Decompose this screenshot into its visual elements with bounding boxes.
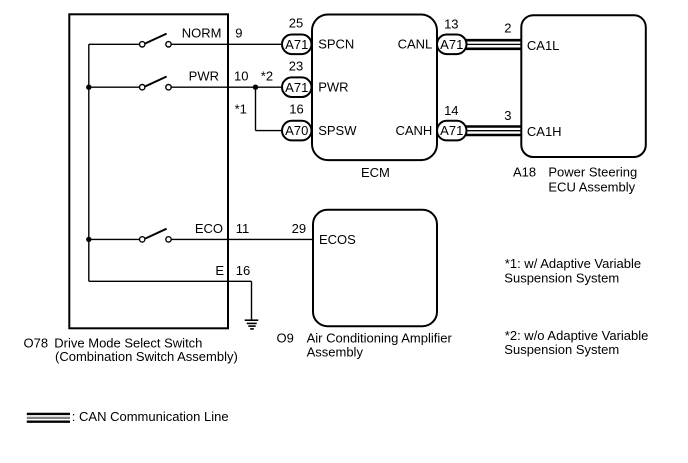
CAN communication line CANL (triple line) — [466, 40, 522, 49]
svg-text:SPCN: SPCN — [318, 37, 354, 52]
svg-text:11: 11 — [236, 221, 250, 236]
switch NORM — [140, 34, 172, 47]
wire: NORM row left segment — [89, 43, 140, 45]
svg-text:NORM: NORM — [182, 26, 222, 41]
svg-text:CANL: CANL — [398, 37, 433, 52]
connector A70 pin 16 (SPSW) — [282, 121, 312, 141]
switch PWR — [140, 77, 172, 90]
A18 label — [513, 164, 637, 194]
svg-text:: CAN Communication Line: : CAN Communication Line — [72, 409, 229, 424]
svg-text:16: 16 — [236, 263, 250, 278]
svg-text:3: 3 — [504, 108, 511, 123]
svg-text:ECO: ECO — [195, 221, 223, 236]
svg-text:CANH: CANH — [395, 123, 432, 138]
wire: bus vertical — [88, 44, 90, 281]
O9 label — [277, 331, 453, 360]
svg-text:29: 29 — [292, 221, 306, 236]
svg-text:CA1H: CA1H — [527, 124, 562, 139]
svg-text:A71: A71 — [440, 37, 463, 52]
svg-text:25: 25 — [289, 16, 303, 31]
legend CAN line symbol — [27, 414, 70, 422]
junction dot bus/PWR — [86, 85, 91, 90]
switch ECO — [140, 229, 172, 242]
svg-text:16: 16 — [289, 102, 303, 117]
svg-text:ECM: ECM — [361, 165, 390, 180]
wire: branch vertical *1 — [255, 87, 257, 130]
connector A71 pin 25 (SPCN) — [282, 35, 312, 55]
svg-text:CA1L: CA1L — [527, 38, 560, 53]
connector A71 pin 23 (PWR) — [282, 77, 312, 97]
svg-text:O78: O78 — [24, 336, 49, 351]
svg-text:Assembly: Assembly — [307, 345, 364, 360]
svg-text:(Combination Switch Assembly): (Combination Switch Assembly) — [55, 349, 238, 364]
svg-text:10: 10 — [234, 68, 248, 83]
junction dot PWR branch — [253, 85, 258, 90]
svg-text:*2: *2 — [261, 68, 273, 83]
wire: NORM row right segment to A71 pin 25 — [171, 43, 283, 45]
wire: ground stem — [251, 281, 253, 320]
svg-text:A71: A71 — [285, 80, 308, 95]
Power Steering ECU box A18 — [521, 15, 646, 157]
connector A71 pin 13 (CANL) — [437, 35, 467, 55]
svg-text:A71: A71 — [285, 37, 308, 52]
wire: PWR row left segment — [89, 86, 140, 88]
svg-text:PWR: PWR — [189, 68, 219, 83]
svg-text:*2: w/o Adaptive Variable: *2: w/o Adaptive Variable — [505, 328, 649, 343]
wire: ECO row right segment to ECOS pin 29 — [171, 238, 314, 240]
svg-text:23: 23 — [289, 59, 303, 74]
svg-text:*1: *1 — [235, 102, 247, 117]
svg-text:Air Conditioning Amplifier: Air Conditioning Amplifier — [307, 331, 453, 346]
svg-text:ECU Assembly: ECU Assembly — [548, 180, 635, 195]
svg-text:Suspension System: Suspension System — [504, 342, 619, 357]
Air Conditioning Amplifier box O9 — [313, 210, 437, 326]
ground symbol — [245, 320, 259, 329]
svg-text:*1: w/ Adaptive Variable: *1: w/ Adaptive Variable — [505, 256, 641, 271]
wire: E row horizontal — [89, 280, 252, 282]
svg-text:13: 13 — [444, 17, 458, 32]
svg-text:E: E — [215, 263, 224, 278]
ECM box U: ECM — [312, 15, 437, 161]
svg-text:2: 2 — [504, 20, 511, 35]
note *2 — [504, 328, 648, 357]
svg-text:O9: O9 — [277, 331, 294, 346]
svg-text:A18: A18 — [513, 164, 536, 179]
connector A71 pin 14 (CANH) — [437, 121, 467, 141]
svg-text:A71: A71 — [440, 123, 463, 138]
svg-text:A70: A70 — [285, 123, 308, 138]
svg-text:14: 14 — [444, 103, 458, 118]
svg-text:9: 9 — [235, 26, 242, 41]
svg-text:SPSW: SPSW — [318, 123, 357, 138]
svg-text:Suspension System: Suspension System — [504, 270, 619, 285]
CAN communication line CANH (triple line) — [466, 127, 522, 136]
wire: PWR row right segment to A71 pin 23 — [171, 86, 283, 88]
svg-text:ECOS: ECOS — [319, 232, 356, 247]
wire: branch horizontal to A70 pin 16 — [256, 130, 284, 132]
O78 label — [24, 336, 238, 364]
junction dot bus/ECO — [86, 237, 91, 242]
O78 Drive Mode Select Switch box — [69, 14, 228, 328]
svg-text:PWR: PWR — [318, 80, 348, 95]
svg-text:Power Steering: Power Steering — [548, 164, 637, 179]
wire: ECO row left segment — [89, 238, 140, 240]
note *1 — [504, 256, 641, 285]
